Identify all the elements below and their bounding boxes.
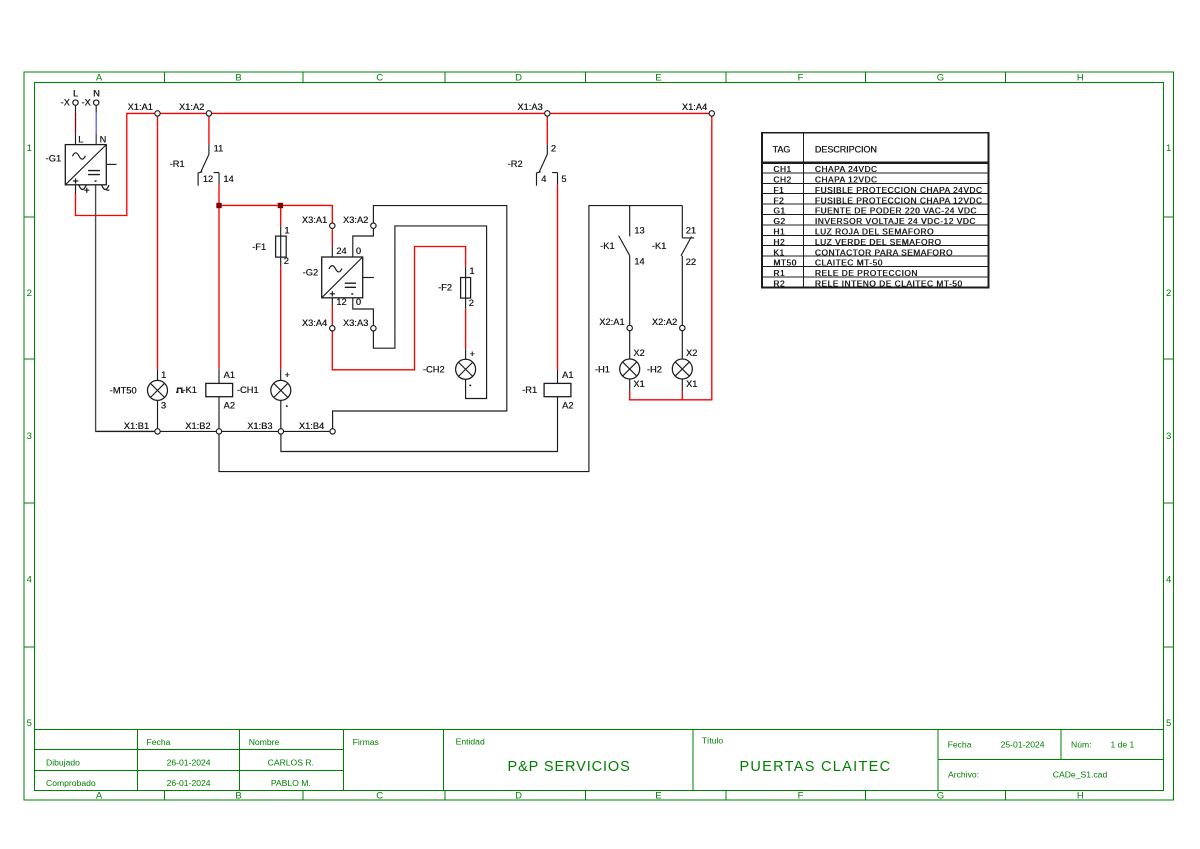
- pin: G2 input 24 (black): [331, 246, 333, 257]
- svg-text:3: 3: [1166, 431, 1171, 442]
- wire: X1:A1 to X1:A2 (red): [160, 112, 206, 114]
- svg-text:D: D: [515, 73, 522, 84]
- G1 right stub: [106, 163, 116, 165]
- G1 V- output cup: [102, 185, 109, 189]
- terminal X1:B4: [330, 429, 335, 434]
- terminal X2:A2: [680, 325, 685, 330]
- svg-text:INVERSOR VOLTAJE 24 VDC-12 VDC: INVERSOR VOLTAJE 24 VDC-12 VDC: [815, 216, 976, 226]
- svg-text:FUSIBLE PROTECCION CHAPA 12VDC: FUSIBLE PROTECCION CHAPA 12VDC: [815, 195, 983, 205]
- svg-text:X2: X2: [633, 348, 644, 358]
- svg-text:-G1: -G1: [46, 153, 62, 163]
- inverter G2 box: [322, 257, 363, 298]
- svg-text:CHAPA 12VDC: CHAPA 12VDC: [815, 175, 878, 185]
- svg-text:Fecha: Fecha: [948, 740, 972, 750]
- svg-text:X3:A2: X3:A2: [343, 215, 368, 225]
- wire: X1:A1 down to MT50 lamp (red): [157, 116, 159, 369]
- svg-text:FUENTE DE PODER 220 VAC-24 VDC: FUENTE DE PODER 220 VAC-24 VDC: [815, 206, 977, 216]
- contact K1 NC (21/22): [681, 206, 683, 238]
- svg-text:-R1: -R1: [170, 159, 185, 169]
- terminal X1:A3: [545, 111, 550, 116]
- svg-text:X1:A4: X1:A4: [682, 102, 707, 112]
- svg-text:2: 2: [27, 288, 32, 299]
- svg-text:C: C: [376, 790, 383, 801]
- svg-text:1: 1: [27, 143, 32, 154]
- svg-text:Archivo:: Archivo:: [948, 770, 979, 780]
- fuse F1: [280, 226, 282, 266]
- lamp MT50: [148, 380, 168, 400]
- pin: CH2 lamp top: [465, 349, 467, 359]
- svg-text:X2:A2: X2:A2: [652, 317, 677, 327]
- svg-text:C: C: [376, 73, 383, 84]
- power supply G1 box: [65, 145, 106, 185]
- svg-text:Fecha: Fecha: [147, 737, 171, 747]
- G1 DC symbol: [88, 171, 100, 175]
- terminal X3:A1: [330, 223, 335, 228]
- G2 DC symbol: [345, 283, 356, 287]
- svg-text:X1: X1: [633, 379, 644, 389]
- terminal -X L phase: pin with maroon segment: [75, 105, 77, 113]
- wire: G2 output 12 through X3:A4 (red): [331, 298, 333, 307]
- svg-text:H1: H1: [773, 227, 785, 237]
- pins X2 to lamps: [630, 331, 683, 359]
- relay coil R1: [557, 370, 559, 383]
- column band separators bottom: [164, 791, 1005, 801]
- svg-text:A1: A1: [224, 370, 235, 380]
- svg-text:-F1: -F1: [252, 242, 266, 252]
- svg-text:4: 4: [541, 174, 546, 184]
- svg-text:E: E: [655, 790, 661, 801]
- svg-text:X3:A1: X3:A1: [302, 215, 327, 225]
- svg-text:F2: F2: [773, 195, 784, 205]
- svg-text:LUZ VERDE DEL SEMAFORO: LUZ VERDE DEL SEMAFORO: [815, 237, 942, 247]
- svg-text:CARLOS R.: CARLOS R.: [268, 758, 314, 768]
- svg-text:-F2: -F2: [438, 283, 452, 293]
- wire: X1:A3 to X1:A4 (red): [550, 112, 709, 114]
- title block grid: [35, 730, 1164, 791]
- terminal X1:B1: [155, 429, 160, 434]
- svg-text:-CH1: -CH1: [237, 385, 259, 395]
- svg-text:26-01-2024: 26-01-2024: [167, 778, 211, 788]
- wire: X1:A3 down to R2 contact (red): [546, 116, 548, 144]
- svg-text:13: 13: [634, 225, 644, 235]
- junction node at F1 / CH1 column: [278, 203, 283, 208]
- wire: X3:A2 to G2 input 0 (black): [353, 229, 374, 258]
- K1 coil type symbol + label: [176, 388, 184, 392]
- svg-text:X1:A1: X1:A1: [127, 102, 152, 112]
- svg-text:25-01-2024: 25-01-2024: [1001, 740, 1045, 750]
- svg-text:R1: R1: [773, 268, 785, 278]
- wire: X1:A4 down to H1/H2 lamp commons (red): [630, 116, 712, 400]
- svg-text:N: N: [99, 135, 106, 145]
- svg-text:+: +: [469, 349, 474, 359]
- svg-text:CADe_S1.cad: CADe_S1.cad: [1053, 770, 1108, 780]
- svg-text:X1: X1: [686, 379, 697, 389]
- svg-text:-H1: -H1: [595, 364, 610, 374]
- svg-text:0: 0: [356, 246, 361, 256]
- svg-text:X1:B2: X1:B2: [185, 421, 210, 431]
- svg-text:2: 2: [469, 298, 474, 308]
- svg-text:X1:A3: X1:A3: [517, 102, 542, 112]
- svg-text:A2: A2: [562, 401, 573, 411]
- terminal circle -X L: [73, 100, 78, 105]
- svg-text:-K1: -K1: [652, 241, 666, 251]
- svg-text:2: 2: [1166, 288, 1171, 299]
- svg-text:-X: -X: [81, 98, 90, 108]
- svg-text:-K1: -K1: [182, 385, 196, 395]
- svg-text:22: 22: [686, 257, 696, 267]
- svg-text:H: H: [1077, 790, 1084, 801]
- svg-text:G2: G2: [773, 216, 785, 226]
- svg-text:H: H: [1077, 73, 1084, 84]
- G2 minus dot: [351, 293, 353, 295]
- svg-text:26-01-2024: 26-01-2024: [167, 758, 211, 768]
- svg-text:X1:B4: X1:B4: [299, 421, 324, 431]
- svg-text:Comprobado: Comprobado: [46, 778, 96, 788]
- svg-text:Dibujado: Dibujado: [46, 758, 80, 768]
- svg-text:Nombre: Nombre: [249, 737, 280, 747]
- svg-text:1: 1: [1166, 143, 1171, 154]
- svg-text:3: 3: [27, 431, 32, 442]
- svg-text:G: G: [937, 73, 944, 84]
- svg-text:CH1: CH1: [773, 164, 791, 174]
- svg-text:X3:A4: X3:A4: [302, 318, 327, 328]
- wire: X1:A2 down to R1 contact (red): [208, 116, 210, 144]
- wire: X3:A2 outer loop to X1:B4 (black): [333, 206, 507, 429]
- svg-text:2: 2: [284, 256, 289, 266]
- fuse F2: [465, 267, 467, 308]
- terminal X2:A1: [627, 325, 632, 330]
- svg-text:X1:B3: X1:B3: [247, 421, 272, 431]
- svg-text:X1:B1: X1:B1: [124, 421, 149, 431]
- svg-text:FUSIBLE PROTECCION CHAPA 24VDC: FUSIBLE PROTECCION CHAPA 24VDC: [815, 185, 983, 195]
- relay contact R2 (2/4/5): [546, 144, 548, 154]
- svg-text:-R1: -R1: [522, 385, 537, 395]
- wire: X3:A3 inner loop to CH2 lamp (black): [373, 226, 486, 399]
- svg-text:4: 4: [1166, 575, 1171, 586]
- svg-text:B: B: [235, 790, 241, 801]
- wire: G2 output 0 to X3:A3 (black): [353, 298, 374, 326]
- svg-text:X1:A2: X1:A2: [179, 102, 204, 112]
- X1:B terminal strip bus wire: [96, 430, 332, 432]
- svg-text:X2: X2: [686, 348, 697, 358]
- svg-text:G1: G1: [773, 206, 785, 216]
- lamp H1: [620, 359, 640, 379]
- svg-text:RELE INTENO DE CLAITEC MT-50: RELE INTENO DE CLAITEC MT-50: [815, 279, 963, 289]
- svg-text:RELE DE PROTECCION: RELE DE PROTECCION: [815, 268, 918, 278]
- svg-text:21: 21: [686, 225, 696, 235]
- G1 V+ output pin: [75, 185, 77, 194]
- wire: X1:B3 to R1 coil A2 (black): [281, 397, 558, 452]
- svg-text:CLAITEC MT-50: CLAITEC MT-50: [815, 258, 883, 268]
- svg-text:12: 12: [336, 297, 346, 307]
- svg-text:F: F: [798, 73, 804, 84]
- svg-text:4: 4: [27, 575, 32, 586]
- svg-text:-CH2: -CH2: [423, 364, 445, 374]
- svg-text:PABLO M.: PABLO M.: [271, 778, 311, 788]
- svg-text:Entidad: Entidad: [456, 737, 485, 747]
- row band separators right: [1164, 217, 1174, 647]
- svg-text:P&P SERVICIOS: P&P SERVICIOS: [508, 759, 631, 775]
- wire: G1 V+ output loop to X1:A1 (red): [76, 113, 155, 215]
- svg-text:X3:A3: X3:A3: [343, 318, 368, 328]
- svg-text:5: 5: [561, 174, 566, 184]
- relay contact R1 (11/12/14): [208, 144, 210, 154]
- G1 AC sine symbol: [72, 153, 85, 159]
- wire: R1 contact 14 down to K1 coil (red): [218, 185, 220, 370]
- svg-text:Firmas: Firmas: [353, 737, 379, 747]
- svg-text:+: +: [284, 370, 289, 380]
- svg-text:CONTACTOR PARA SEMAFORO: CONTACTOR PARA SEMAFORO: [815, 247, 953, 257]
- svg-text:11: 11: [214, 143, 224, 153]
- lamp H2: [672, 359, 692, 379]
- terminal X1:A2: [206, 111, 211, 116]
- svg-text:G: G: [937, 790, 944, 801]
- svg-text:R2: R2: [773, 279, 785, 289]
- G2 right stub: [363, 277, 374, 279]
- svg-text:0: 0: [356, 297, 361, 307]
- svg-text:L: L: [78, 135, 83, 145]
- svg-text:Título: Título: [702, 736, 724, 746]
- terminal X3:A3: [371, 326, 376, 331]
- svg-text:A2: A2: [224, 401, 235, 411]
- svg-text:1: 1: [161, 370, 166, 380]
- svg-text:2: 2: [551, 143, 556, 153]
- svg-text:14: 14: [223, 174, 233, 184]
- svg-text:LUZ ROJA DEL SEMAFORO: LUZ ROJA DEL SEMAFORO: [815, 227, 934, 237]
- svg-text:F: F: [798, 790, 804, 801]
- svg-text:MT50: MT50: [773, 258, 796, 268]
- wire: F1 branch junction to CH1 lamp (red): [280, 208, 282, 369]
- svg-text:5: 5: [1166, 718, 1171, 729]
- wire: X1:B2 loop to K1 contacts branch (black): [219, 206, 682, 472]
- svg-text:-MT50: -MT50: [110, 386, 137, 396]
- svg-text:E: E: [655, 73, 661, 84]
- svg-text:H2: H2: [773, 237, 785, 247]
- junction node at R1-14 / K1 coil column: [216, 203, 221, 208]
- svg-text:14: 14: [634, 256, 644, 266]
- svg-text:A: A: [96, 73, 103, 84]
- G1 plus mark: [73, 178, 78, 183]
- svg-text:N: N: [93, 89, 100, 99]
- svg-text:-K1: -K1: [600, 241, 614, 251]
- svg-text:1: 1: [469, 266, 474, 276]
- G1 minus dot: [95, 180, 97, 182]
- terminal X3:A4: [330, 326, 335, 331]
- terminal X1:A1: [155, 111, 160, 116]
- svg-text:-H2: -H2: [647, 364, 662, 374]
- terminal circle -X N: [94, 100, 99, 105]
- row band separators left: [24, 217, 35, 647]
- svg-text:1: 1: [284, 226, 289, 236]
- svg-text:24: 24: [336, 246, 346, 256]
- wire: X1:A2 to X1:A3 (red): [212, 112, 545, 114]
- G1 V+ output cup: [79, 185, 86, 189]
- lamp CH2: [456, 359, 476, 379]
- svg-text:5: 5: [27, 718, 32, 729]
- wire: X3:A1 to G2 input 24 (red): [331, 228, 333, 246]
- wire: R2 contact 5 down to R1 coil (red): [557, 185, 559, 370]
- svg-text:X2:A1: X2:A1: [599, 317, 624, 327]
- svg-text:F1: F1: [773, 185, 784, 195]
- relay coil K1: [218, 369, 220, 428]
- svg-text:3: 3: [161, 401, 166, 411]
- svg-text:1 de 1: 1 de 1: [1110, 740, 1134, 750]
- contact K1 NO (13/14): [629, 206, 631, 237]
- svg-text:-G2: -G2: [303, 268, 319, 278]
- G2 plus mark: [330, 291, 335, 296]
- terminal X1:B2: [216, 429, 221, 434]
- svg-text:CH2: CH2: [773, 175, 791, 185]
- terminal -X N: pin with blue segment: [95, 105, 97, 113]
- column band separators top: [164, 72, 1005, 83]
- svg-text:D: D: [515, 790, 522, 801]
- svg-text:Núm:: Núm:: [1071, 740, 1092, 750]
- TAG table frame: [762, 133, 989, 288]
- svg-text:PUERTAS CLAITEC: PUERTAS CLAITEC: [739, 759, 891, 775]
- svg-text:-X: -X: [61, 98, 70, 108]
- svg-text:A: A: [96, 790, 103, 801]
- G2 AC sine symbol: [329, 266, 342, 272]
- svg-text:12: 12: [203, 174, 213, 184]
- svg-text:-R2: -R2: [508, 159, 523, 169]
- terminal X1:A4: [709, 111, 714, 116]
- lamp CH1: [271, 380, 291, 400]
- terminal X3:A2: [371, 223, 376, 228]
- terminal X1:B3: [278, 429, 283, 434]
- svg-text:TAG: TAG: [773, 145, 791, 155]
- svg-text:A1: A1: [562, 370, 573, 380]
- svg-text:K1: K1: [773, 247, 784, 257]
- svg-text:L: L: [73, 89, 78, 99]
- drawing frame inner border: [35, 83, 1164, 791]
- svg-text:B: B: [235, 73, 241, 84]
- svg-text:CHAPA 24VDC: CHAPA 24VDC: [815, 164, 878, 174]
- wire: G1 V- output to X1:B1 (gray): [96, 185, 155, 432]
- wire: junction row to X3:A1 (red): [219, 205, 332, 223]
- svg-text:DESCRIPCION: DESCRIPCION: [815, 145, 877, 155]
